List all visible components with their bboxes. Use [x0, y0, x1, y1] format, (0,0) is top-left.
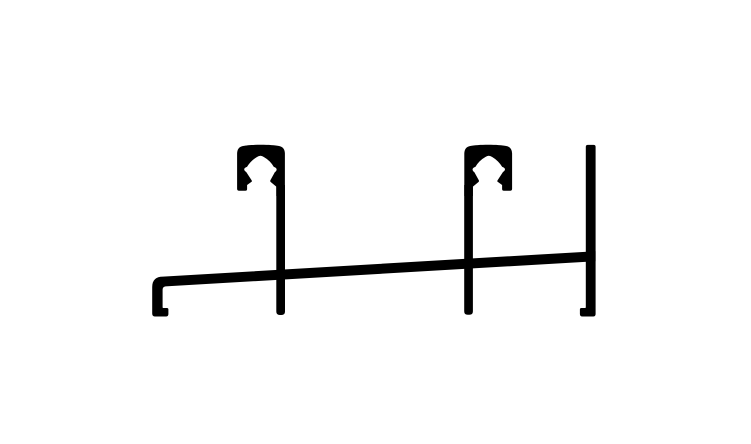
- left hook stem: [276, 185, 285, 315]
- right hook clip (mirrored arch with keyhole cutout): [464, 145, 512, 196]
- right hook stem: [464, 185, 473, 315]
- right end vertical bar with foot: [580, 145, 596, 317]
- left hook clip (arch with keyhole cutout): [237, 145, 285, 196]
- slanted rail with left leg and foot: [152, 251, 595, 316]
